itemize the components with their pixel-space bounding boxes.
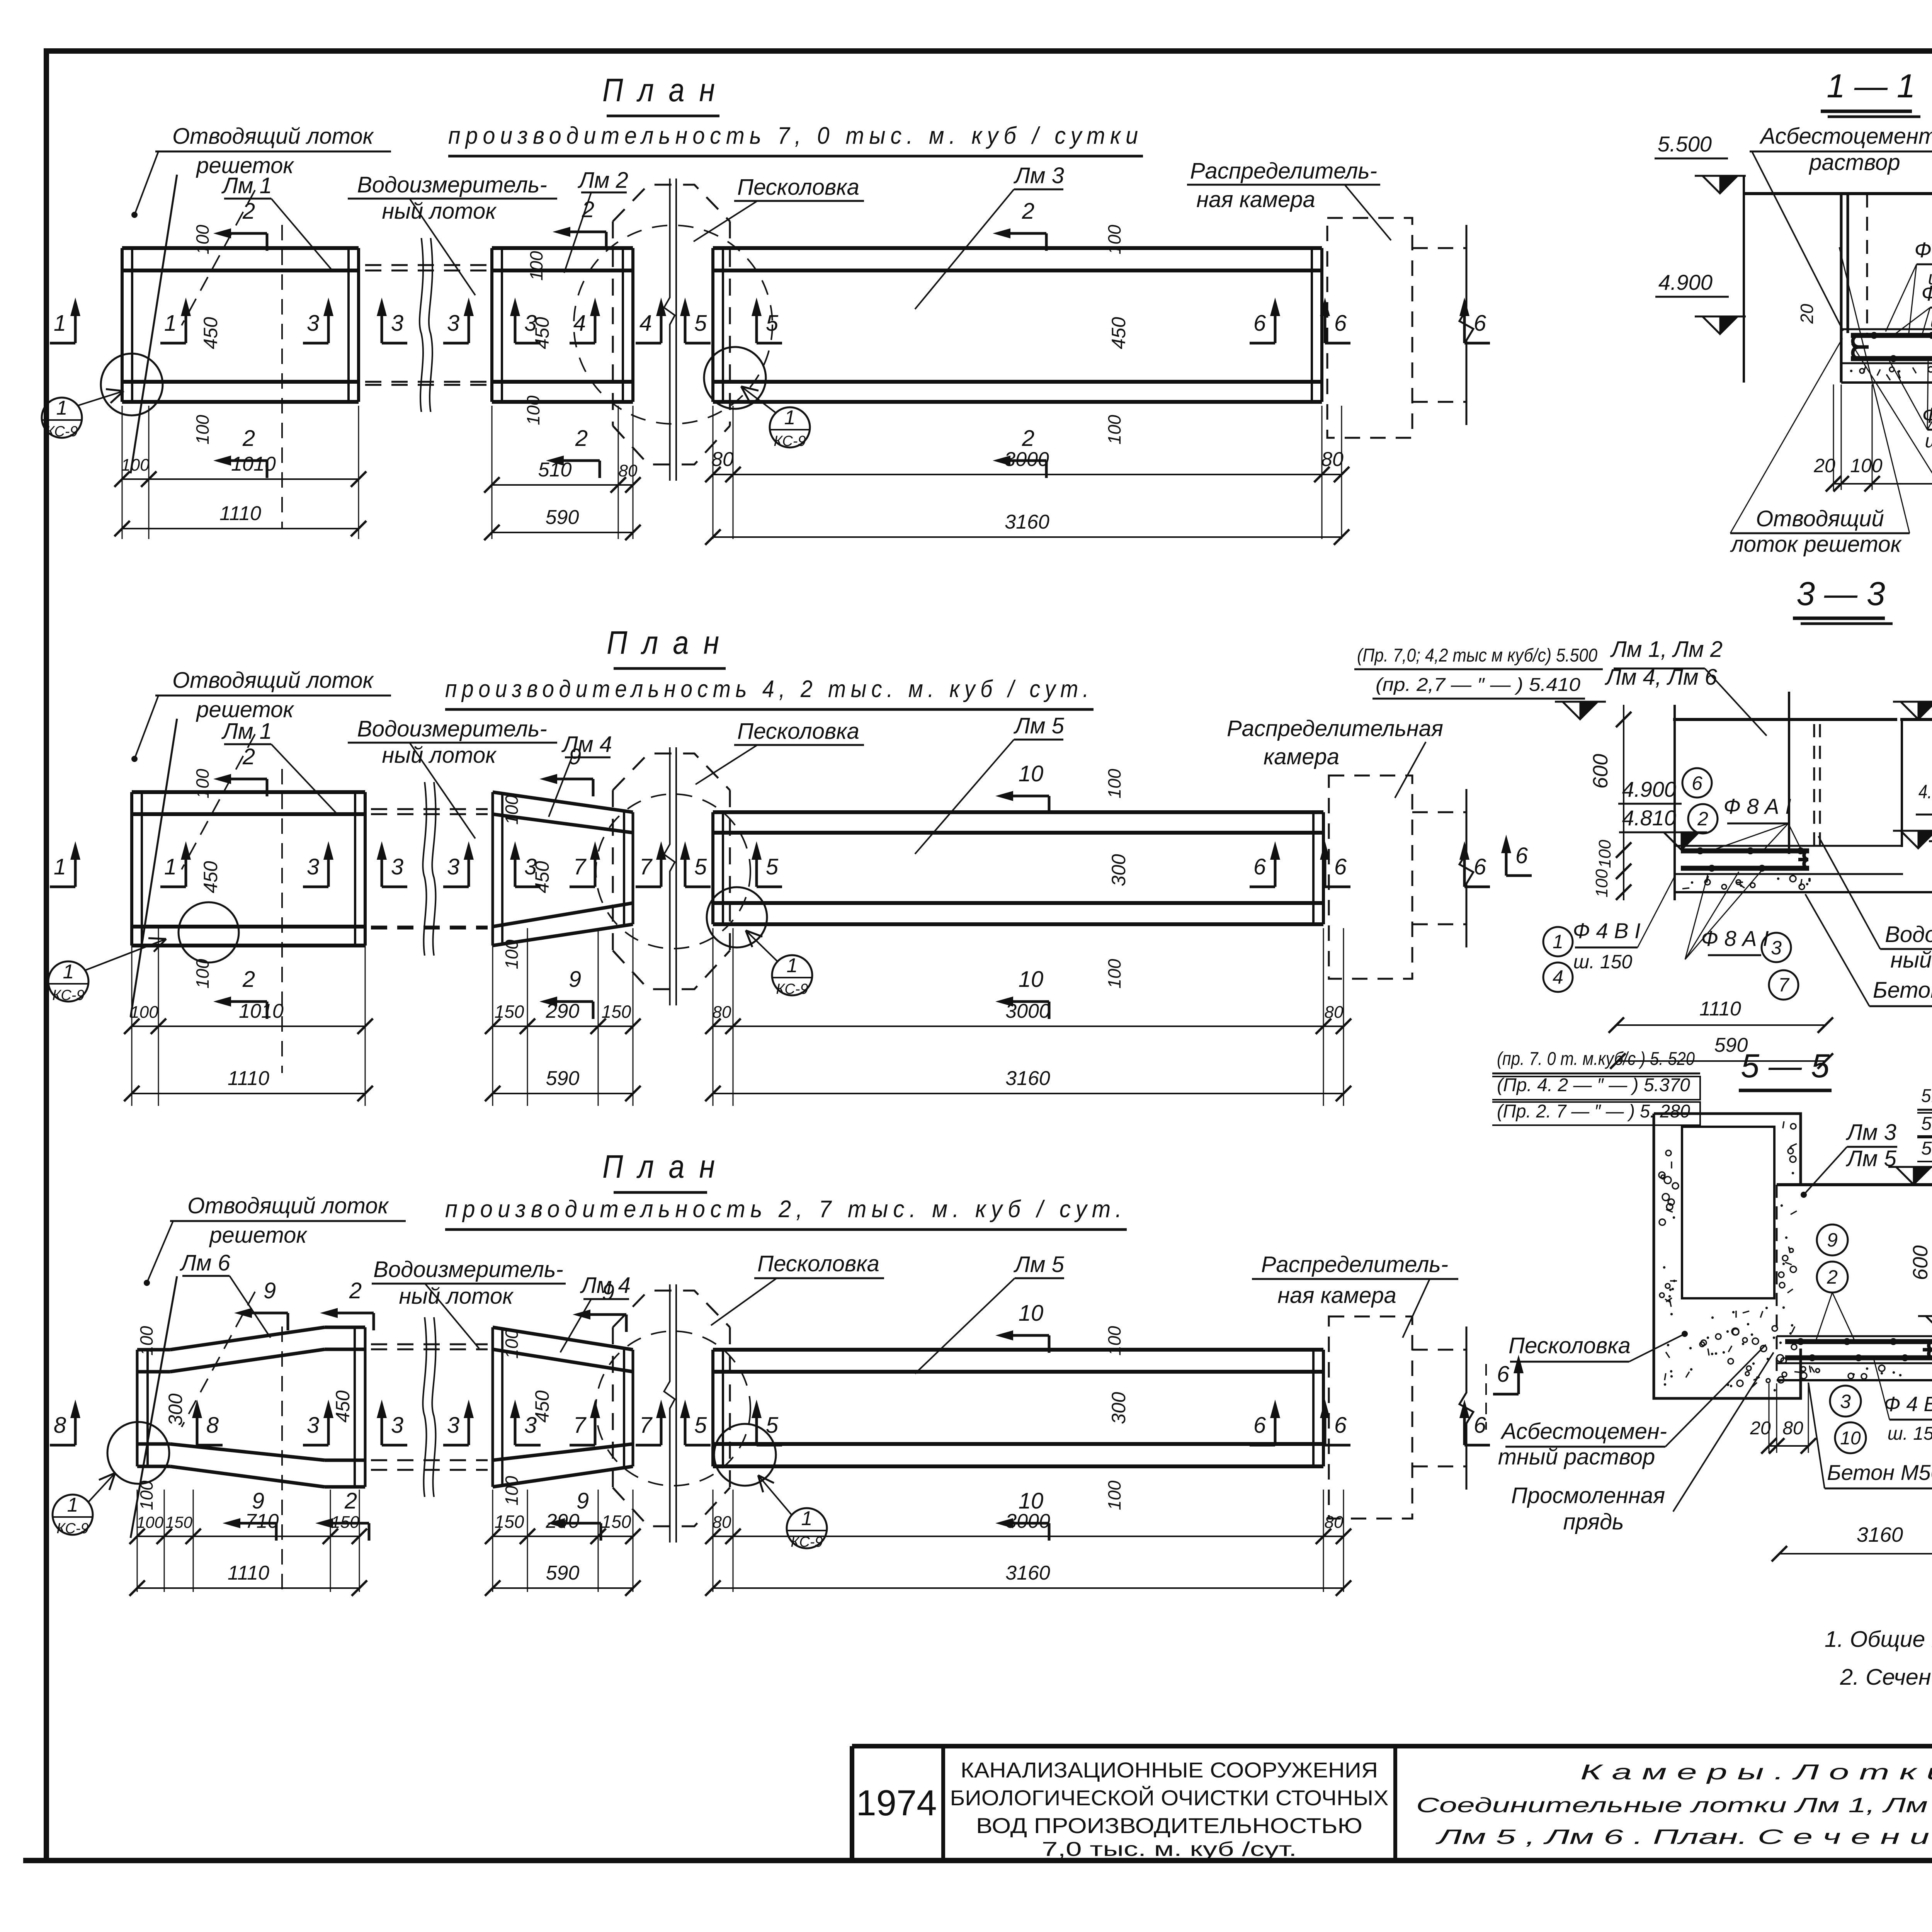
svg-text:80: 80 [713,1513,731,1532]
svg-text:10: 10 [1019,1301,1044,1326]
svg-text:5: 5 [694,311,707,336]
svg-text:Асбестоцементный: Асбестоцементный [1759,124,1932,149]
svg-text:Отводящий лоток: Отводящий лоток [187,1193,389,1218]
plan3 распределительная камера (dashed) [1329,1316,1473,1519]
svg-text:1 — 1: 1 — 1 [1827,68,1915,105]
svg-text:Просмоленная: Просмоленная [1511,1483,1665,1508]
svg-text:Песколовка: Песколовка [757,1251,879,1276]
svg-text:Ф 4 В I: Ф 4 В I [1921,281,1932,305]
svg-text:(пр. 7. 0 т. м.куб/с ) 5. 520: (пр. 7. 0 т. м.куб/с ) 5. 520 [1497,1049,1695,1069]
svg-text:1: 1 [787,954,798,977]
svg-text:3: 3 [307,311,319,336]
svg-text:100: 100 [1850,455,1883,476]
svg-text:3: 3 [391,311,403,336]
svg-text:590: 590 [546,1562,580,1584]
svg-text:1: 1 [54,854,66,879]
svg-text:6: 6 [1334,311,1347,336]
svg-text:6: 6 [1474,311,1486,336]
svg-text:100: 100 [1104,959,1124,988]
svg-text:Лм 5: Лм 5 [1013,713,1065,738]
svg-text:Ф 8 А I: Ф 8 А I [1723,794,1791,818]
plan2 left cut edge [131,719,282,1073]
svg-text:Водоизмеритель-: Водоизмеритель- [357,716,547,742]
svg-text:прядь: прядь [1563,1509,1624,1534]
svg-text:Лм 4, Лм 6: Лм 4, Лм 6 [1604,665,1718,690]
svg-text:Ф 8 А I: Ф 8 А I [1914,238,1932,262]
svg-text:1974: 1974 [856,1782,937,1823]
svg-text:КАНАЛИЗАЦИОННЫЕ СООРУЖЕНИЯ: КАНАЛИЗАЦИОННЫЕ СООРУЖЕНИЯ [961,1758,1378,1782]
svg-text:(пр. 2,7 — ″ — ) 5.410: (пр. 2,7 — ″ — ) 5.410 [1376,675,1580,695]
svg-text:100: 100 [192,415,213,444]
svg-text:Отводящий лоток: Отводящий лоток [172,668,374,693]
plan2 водоизмерительный лоток (dashed) [371,782,488,956]
svg-text:100: 100 [502,939,522,969]
plan3 left cut edge [131,1276,282,1594]
svg-text:80: 80 [1325,1513,1344,1532]
svg-text:100: 100 [1595,840,1614,868]
svg-text:лоток решеток: лоток решеток [1730,532,1902,557]
plan1 водоизмерительный лоток (dashed) [365,238,487,412]
svg-text:1: 1 [56,397,68,419]
svg-text:5: 5 [694,854,707,879]
svg-text:решеток: решеток [209,1223,308,1248]
svg-text:1: 1 [164,854,177,879]
svg-text:10: 10 [1019,761,1044,786]
title block [852,1746,1932,1861]
svg-text:9: 9 [1827,1229,1838,1251]
svg-text:Лм 1: Лм 1 [221,173,272,198]
svg-text:ная камера: ная камера [1196,187,1315,212]
svg-text:1: 1 [801,1507,813,1530]
svg-text:100: 100 [523,395,543,425]
svg-text:производительность 4, 2 тыс.: производительность 4, 2 тыс. м. куб / су… [445,676,1094,702]
svg-text:ш. 200: ш. 200 [1925,430,1932,452]
plan1 labels [131,124,1391,309]
svg-text:3160: 3160 [1005,1562,1050,1584]
svg-text:4.900: 4.900 [1622,777,1676,801]
notes Примечания [1825,1580,1932,1690]
svg-text:2: 2 [1022,426,1034,451]
svg-text:9: 9 [569,744,581,769]
plan3 channel Лм4 (transition) [493,1327,633,1487]
svg-text:ный лоток: ный лоток [1890,947,1932,973]
svg-text:1: 1 [1553,931,1563,952]
svg-text:150: 150 [331,1513,359,1532]
svg-text:2: 2 [1022,199,1034,224]
svg-text:6: 6 [1253,854,1266,879]
svg-text:Лм 1: Лм 1 [221,719,272,744]
svg-text:3: 3 [447,311,459,336]
plan3 водоизмерительный лоток (dashed) [371,1317,488,1497]
svg-text:80: 80 [619,461,638,480]
svg-text:Песколовка: Песколовка [737,719,859,744]
plan1 detail circles КС-9 [42,347,810,449]
svg-text:Отводящий лоток: Отводящий лоток [172,124,374,149]
svg-text:1: 1 [54,311,66,336]
plan1 section marks [50,197,1490,478]
svg-text:9: 9 [602,1280,614,1305]
svg-text:150: 150 [602,1512,631,1532]
svg-text:100: 100 [502,1329,522,1359]
svg-text:5.500: 5.500 [1658,132,1712,156]
svg-text:100: 100 [136,1326,156,1355]
svg-text:ная камера: ная камера [1277,1283,1396,1308]
svg-text:3: 3 [307,1413,319,1438]
svg-text:(Пр. 2. 7 — ″ — ) 5. 280: (Пр. 2. 7 — ″ — ) 5. 280 [1497,1101,1690,1122]
svg-text:3: 3 [447,1413,459,1438]
plan1 channel Лм3 [713,248,1322,402]
plan1 channel Лм2 [492,248,633,402]
svg-text:Асбестоцемен-: Асбестоцемен- [1500,1419,1667,1444]
svg-text:590: 590 [546,1067,580,1090]
svg-text:БИОЛОГИЧЕСКОЙ ОЧИСТКИ СТОЧНЫ: БИОЛОГИЧЕСКОЙ ОЧИСТКИ СТОЧНЫХ [950,1786,1389,1810]
svg-text:Лм 5: Лм 5 [1013,1252,1065,1277]
svg-text:100: 100 [130,1003,158,1022]
svg-text:100: 100 [1104,415,1124,444]
PLAN 1 (производительность 7,0) [448,72,1143,156]
svg-text:80: 80 [1321,448,1344,471]
svg-text:Отводящий: Отводящий [1756,506,1884,531]
svg-text:4.900: 4.900 [1658,270,1713,294]
svg-text:4: 4 [1553,966,1563,988]
svg-text:(Пр. 4. 2 — ″ — ) 5.370: (Пр. 4. 2 — ″ — ) 5.370 [1497,1075,1690,1095]
svg-text:1: 1 [63,961,74,983]
svg-text:1110: 1110 [228,1067,269,1090]
svg-text:Ф 4 В I: Ф 4 В I [1884,1393,1932,1416]
svg-text:3: 3 [391,854,403,879]
svg-text:3: 3 [307,854,319,879]
svg-text:2: 2 [344,1488,357,1514]
svg-text:6: 6 [1253,311,1266,336]
svg-text:Соединительные лотки Лм 1,: Соединительные лотки Лм 1, Лм 2, Лм3, Лм… [1416,1794,1932,1817]
svg-text:производительность 7, 0 тыс.: производительность 7, 0 тыс. м. куб / су… [448,122,1143,149]
svg-text:5: 5 [766,854,779,879]
svg-text:1: 1 [784,406,796,429]
svg-text:Распределитель-: Распределитель- [1190,158,1377,184]
svg-text:КС-9: КС-9 [774,433,806,449]
SECTION 5-5 [1486,1048,1932,1561]
svg-text:150: 150 [495,1002,524,1022]
svg-text:100: 100 [1592,869,1611,898]
svg-text:20: 20 [1750,1418,1771,1439]
svg-text:тный раствор: тный раствор [1498,1444,1655,1469]
plan3 small dims [136,1326,1129,1510]
plan1 распределительная камера (dashed) [1327,218,1473,438]
svg-text:100: 100 [1104,1480,1124,1510]
svg-text:300: 300 [165,1393,186,1426]
svg-text:8: 8 [206,1413,219,1438]
plan3 channel Лм6 (flared transition) [137,1327,365,1487]
svg-text:Распределительная: Распределительная [1227,716,1443,741]
svg-text:Лм 3: Лм 3 [1845,1120,1896,1145]
svg-text:Бетон М 50: Бетон М 50 [1873,978,1932,1003]
svg-text:ВОД ПРОИЗВОДИТЕЛЬНОСТЬЮ: ВОД ПРОИЗВОДИТЕЛЬНОСТЬЮ [976,1813,1362,1838]
svg-text:1110: 1110 [1699,998,1741,1020]
svg-text:Лм 2: Лм 2 [577,168,628,193]
SECTION 1-1 [1655,68,1932,557]
svg-text:80: 80 [711,448,734,471]
svg-text:5: 5 [694,1413,707,1438]
svg-text:150: 150 [165,1513,193,1531]
svg-text:710: 710 [245,1510,279,1532]
svg-text:100: 100 [192,224,213,254]
svg-text:КС-9: КС-9 [776,981,808,997]
svg-text:100: 100 [526,251,546,281]
svg-text:100: 100 [192,769,213,798]
svg-text:8: 8 [54,1413,66,1438]
svg-text:Распределитель-: Распределитель- [1261,1252,1448,1277]
svg-text:9: 9 [569,967,581,992]
svg-text:Лм 1, Лм 2: Лм 1, Лм 2 [1610,637,1723,662]
svg-text:6: 6 [1692,772,1702,794]
svg-text:9: 9 [264,1278,276,1303]
svg-text:5.160 (Пр. 2.7 т.м.куб/с): 5.160 (Пр. 2.7 т.м.куб/с) [1921,1086,1932,1106]
section 5-5 left level table (пр./5.520 etc) [1492,1049,1700,1125]
plan2 labels [131,668,1443,854]
svg-text:100: 100 [1104,224,1124,254]
plan2 channel Лм5 [713,812,1323,924]
svg-text:1010: 1010 [239,1000,284,1022]
svg-text:1010: 1010 [231,453,276,475]
plan1 small dims 100/450 [192,224,1129,444]
svg-text:100: 100 [121,456,150,474]
plan3 channel Лм5 [713,1350,1323,1466]
svg-text:ш. 150: ш. 150 [1888,1423,1932,1444]
svg-text:К а м е р ы . Л о т к и .: К а м е р ы . Л о т к и . [1580,1760,1932,1784]
svg-text:3160: 3160 [1005,511,1049,533]
svg-text:Лм 3: Лм 3 [1013,163,1064,188]
svg-text:6: 6 [1474,854,1486,879]
svg-text:290: 290 [546,1000,580,1022]
svg-text:7: 7 [1778,974,1790,996]
plan2 detail circles КС-9 [48,887,812,1003]
svg-text:Лм 6: Лм 6 [179,1250,231,1276]
svg-text:3000: 3000 [1004,448,1049,471]
svg-text:300: 300 [1108,854,1129,886]
svg-text:1: 1 [67,1494,78,1516]
svg-text:4.810: 4.810 [1622,806,1676,830]
svg-text:3: 3 [1771,937,1782,959]
svg-text:ш. 150: ш. 150 [1573,951,1633,973]
svg-text:2: 2 [1697,808,1708,830]
plan3 dimension rows [129,1490,1351,1596]
svg-text:6: 6 [1334,1413,1347,1438]
svg-text:80: 80 [713,1003,731,1022]
svg-text:100: 100 [136,1480,156,1510]
svg-text:3000: 3000 [1005,1000,1050,1022]
svg-text:П л а н: П л а н [602,1148,718,1185]
svg-text:4: 4 [639,311,652,336]
svg-text:ный лоток: ный лоток [382,199,497,224]
svg-text:20: 20 [1813,455,1835,476]
svg-text:4.900 (пр. 7,0; 4,2 т.м³/сут): 4.900 (пр. 7,0; 4,2 т.м³/сут) [1918,781,1932,803]
svg-text:300: 300 [1108,1392,1129,1424]
svg-text:450: 450 [200,861,221,893]
svg-text:1. Общие примечания см. лис: 1. Общие примечания см. лист КС- 9 [1825,1627,1932,1652]
svg-text:2. Сечения 7- 7 ÷ 10 - 10: 2. Сечения 7- 7 ÷ 10 - 10 см. лист КС - … [1840,1665,1932,1690]
svg-text:П л а н: П л а н [602,72,718,108]
plan3 section marks [50,1278,1490,1541]
svg-text:2: 2 [242,744,255,769]
svg-text:1: 1 [164,311,177,336]
svg-text:290: 290 [546,1510,580,1532]
svg-text:3: 3 [1840,1391,1851,1412]
svg-text:Лм 5: Лм 5 [1845,1146,1897,1171]
svg-text:1110: 1110 [219,502,261,525]
plan2 песколовка (dashed bulge) [596,747,750,1005]
svg-text:100: 100 [1104,769,1124,798]
svg-text:5 — 5: 5 — 5 [1741,1048,1830,1085]
svg-text:2: 2 [242,199,255,224]
svg-text:2: 2 [242,426,255,451]
svg-text:производительность 2, 7 тыс: производительность 2, 7 тыс. м. куб / су… [445,1196,1127,1223]
svg-text:Песколовка: Песколовка [1509,1333,1631,1358]
svg-text:6: 6 [1497,1362,1510,1387]
svg-text:5: 5 [766,311,779,336]
svg-text:Водоизмеритель-: Водоизмеритель- [373,1257,563,1282]
svg-text:100: 100 [502,795,522,825]
svg-text:камера: камера [1264,744,1339,769]
plan2 dimension rows [124,928,1351,1106]
svg-text:КС-9: КС-9 [56,1520,88,1537]
svg-text:80: 80 [1325,1003,1344,1022]
svg-text:450: 450 [531,317,553,349]
svg-text:150: 150 [495,1512,524,1532]
svg-text:590: 590 [546,506,579,529]
PLAN 3 (производительность 2,7) [445,1148,1127,1230]
plan1 dimension rows [114,406,1349,545]
svg-text:ный лоток: ный лоток [399,1284,514,1309]
svg-text:600: 600 [1909,1245,1932,1280]
plan2 распределительная камера (dashed) [1329,776,1473,979]
svg-text:4: 4 [573,311,586,336]
svg-text:3160: 3160 [1857,1523,1903,1546]
svg-text:Лм 5 , Лм 6 . План. С е: Лм 5 , Лм 6 . План. С е ч е н и я 1-1 ÷ … [1435,1825,1932,1849]
svg-text:450: 450 [332,1390,354,1423]
svg-text:6: 6 [1515,843,1528,868]
svg-text:Водоизмеритель-: Водоизмеритель- [357,172,547,197]
svg-text:(Пр. 7,0; 4,2 тыс м куб/с) 5.5: (Пр. 7,0; 4,2 тыс м куб/с) 5.500 [1357,645,1597,666]
svg-text:2: 2 [582,197,594,222]
svg-text:6: 6 [1334,854,1347,879]
svg-text:150: 150 [602,1002,631,1022]
svg-text:7,0 тыс. м. куб /сут.: 7,0 тыс. м. куб /сут. [1042,1838,1297,1861]
svg-text:20: 20 [1797,304,1817,324]
svg-text:7: 7 [639,1413,653,1438]
svg-text:раствор: раствор [1808,150,1900,175]
svg-text:ный лоток: ный лоток [382,743,497,768]
svg-text:3: 3 [391,1413,403,1438]
svg-text:7: 7 [639,854,653,879]
svg-text:Ф 4 В I: Ф 4 В I [1573,918,1640,943]
svg-text:80: 80 [1782,1418,1803,1439]
svg-text:Песколовка: Песколовка [737,175,859,200]
svg-text:6: 6 [1253,1413,1266,1438]
plan3 detail circles КС-9 [53,1422,827,1550]
svg-text:2: 2 [1827,1266,1838,1288]
svg-text:Бетон М50: Бетон М50 [1827,1460,1932,1485]
svg-text:7: 7 [573,1413,587,1438]
svg-text:ш. 150: ш. 150 [1930,310,1932,332]
svg-text:3: 3 [447,854,459,879]
svg-text:2: 2 [575,426,588,451]
svg-text:450: 450 [200,317,221,349]
svg-text:10: 10 [1840,1428,1861,1449]
plan1 left cut edge [131,175,282,529]
svg-text:600: 600 [1589,754,1612,789]
SECTION 3-3 [1354,575,1932,1069]
svg-text:П л а н: П л а н [607,624,723,661]
svg-text:3160: 3160 [1005,1067,1050,1090]
plan3 песколовка (dashed bulge) [596,1284,750,1543]
svg-text:КС-9: КС-9 [46,423,78,440]
svg-text:7: 7 [573,854,587,879]
svg-text:450: 450 [531,1390,553,1423]
svg-text:100: 100 [502,1476,522,1505]
svg-text:6: 6 [1474,1413,1486,1438]
plan3 labels [144,1193,1458,1374]
PLAN 2 (производительность 4,2) [445,624,1094,709]
plan2 channel Лм4 (transition) [493,792,633,946]
svg-text:510: 510 [538,459,572,481]
svg-text:5.250 (пр. 4, 2 — ″ — ): 5.250 (пр. 4, 2 — ″ — ) [1921,1114,1932,1134]
svg-text:10: 10 [1019,967,1044,992]
svg-text:100: 100 [1104,1326,1124,1355]
svg-text:450: 450 [1108,317,1129,349]
plan2 section marks [50,744,1490,1019]
plan1 песколовка (dashed bulge) [574,179,772,481]
svg-text:2: 2 [242,967,255,992]
svg-text:3 — 3: 3 — 3 [1796,575,1885,612]
svg-text:450: 450 [531,861,553,893]
svg-text:КС-9: КС-9 [52,987,84,1003]
plan2 small dims [192,769,1129,988]
svg-text:3000: 3000 [1005,1510,1050,1532]
plan1 channel Лм1 [122,248,359,402]
svg-text:2: 2 [349,1278,362,1303]
plan2 channel Лм1 [132,792,365,946]
svg-text:5.240 (Пр. 7.0 — ″ — ): 5.240 (Пр. 7.0 — ″ — ) [1921,1138,1932,1159]
svg-text:1110: 1110 [228,1562,269,1584]
svg-text:Водоизмеритель-: Водоизмеритель- [1885,922,1932,947]
svg-text:100: 100 [136,1513,164,1531]
